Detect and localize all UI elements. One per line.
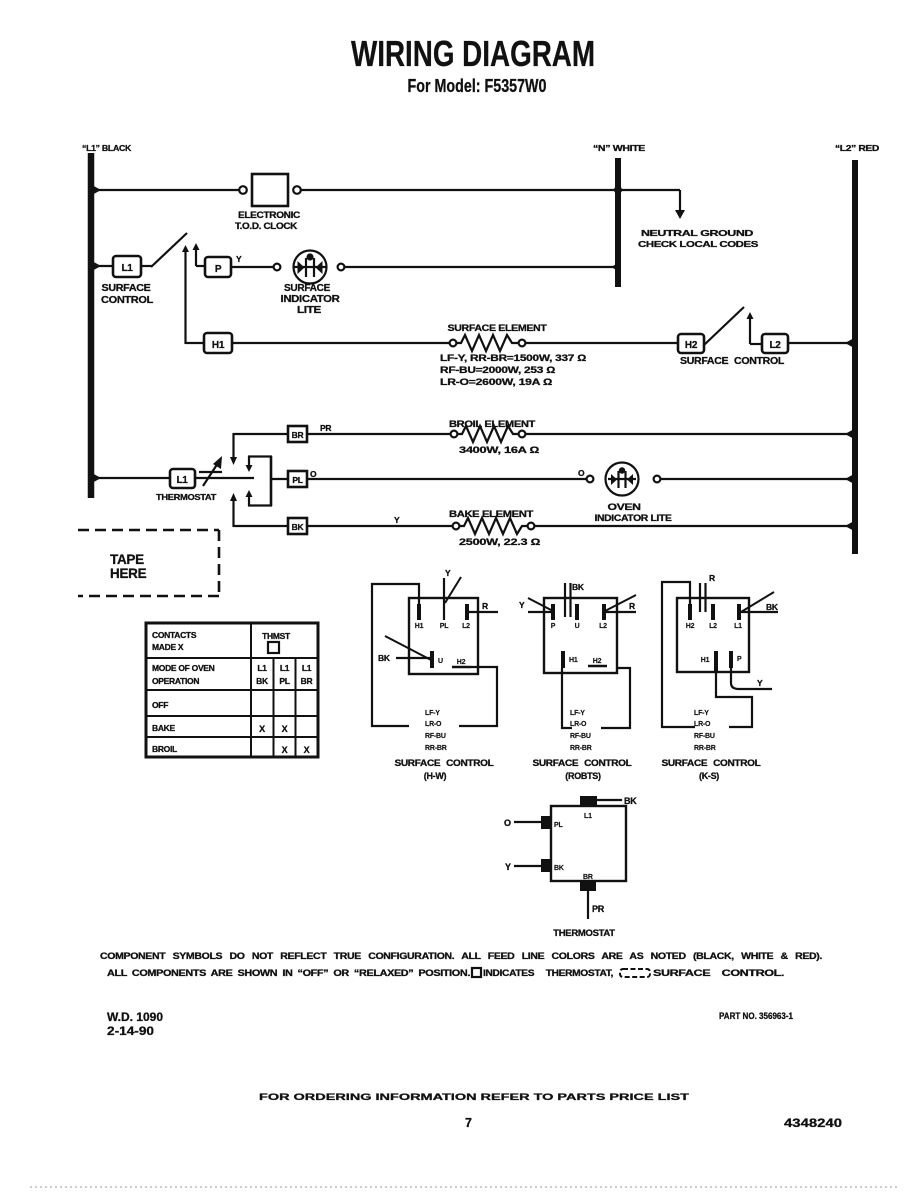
svg-text:SURFACE CONTROL: SURFACE CONTROL (533, 758, 633, 768)
bus L2 red (835, 143, 879, 554)
svg-text:OFF: OFF (152, 700, 168, 710)
svg-text:4348240: 4348240 (784, 1118, 842, 1130)
svg-text:(H-W): (H-W) (424, 771, 447, 781)
svg-text:PL: PL (292, 475, 302, 485)
terminal L2 + R (602, 604, 606, 620)
svg-text:RF-BU: RF-BU (570, 733, 591, 740)
H2 box (678, 334, 704, 353)
svg-text:Y: Y (394, 515, 400, 525)
wire clock to neutral (301, 189, 680, 191)
terminal L1 top (580, 796, 597, 806)
terminal PL left (541, 816, 551, 829)
arrow contact right (to P) (193, 243, 206, 266)
svg-text:O: O (578, 468, 585, 478)
svg-text:BK: BK (572, 582, 585, 592)
svg-text:Y: Y (519, 600, 525, 610)
switch blade L1 (141, 265, 152, 267)
terminal P + Y (551, 604, 555, 620)
svg-text:T.O.D. CLOCK: T.O.D. CLOCK (235, 221, 298, 231)
node row1-L1bus (91, 185, 101, 196)
svg-text:LR-O: LR-O (425, 721, 442, 728)
surface indicator lite lamp (281, 251, 341, 317)
L2 box (680, 334, 788, 367)
wire bracket to PL (271, 478, 288, 480)
contacts table (146, 623, 318, 757)
svg-text:“L2” RED: “L2” RED (835, 143, 879, 153)
thermostat L1 box (156, 469, 217, 502)
oven indicator row (307, 463, 855, 524)
svg-text:ELECTRONIC: ELECTRONIC (238, 210, 301, 220)
svg-text:RF-BU=2000W, 253 Ω: RF-BU=2000W, 253 Ω (440, 365, 555, 375)
svg-text:“N” WHITE: “N” WHITE (593, 143, 646, 153)
arrow neutral ground (675, 210, 685, 219)
svg-text:PL: PL (440, 623, 449, 630)
svg-text:PL: PL (554, 822, 563, 829)
svg-text:TAPE: TAPE (110, 552, 144, 567)
svg-text:L1: L1 (257, 663, 267, 673)
svg-text:BK: BK (554, 865, 564, 872)
svg-text:PART NO. 356963-1: PART NO. 356963-1 (719, 1011, 793, 1021)
svg-text:L1: L1 (302, 663, 312, 673)
svg-text:P: P (737, 656, 742, 663)
svg-text:PR: PR (320, 423, 331, 433)
svg-text:(K-S): (K-S) (699, 771, 719, 781)
svg-text:THERMOSTAT: THERMOSTAT (553, 928, 615, 939)
svg-text:BK: BK (292, 522, 305, 532)
svg-text:L2: L2 (709, 623, 717, 630)
svg-text:RF-BU: RF-BU (425, 733, 446, 740)
terminal circle clock left (239, 186, 247, 194)
wire H1 to element (232, 342, 450, 344)
node row2-L1bus (91, 261, 101, 272)
contact BK box (288, 518, 307, 534)
terminal PL wire Y (443, 578, 445, 620)
thermostat moving contact lower (230, 493, 237, 527)
terminal circle lamp right (338, 264, 345, 271)
svg-text:2500W, 22.3 Ω: 2500W, 22.3 Ω (459, 537, 540, 547)
bus N white (593, 143, 646, 287)
svg-text:LR-O: LR-O (570, 721, 587, 728)
terminal BR bottom (580, 881, 596, 891)
thermostat cam bracket (246, 456, 273, 506)
svg-text:R: R (482, 601, 488, 611)
svg-text:HERE: HERE (110, 566, 147, 581)
svg-text:Y: Y (757, 678, 763, 688)
terminal circle lamp left (274, 264, 281, 271)
svg-text:LITE: LITE (297, 305, 322, 316)
bus L1 black (82, 143, 132, 498)
surface control (ROBTS) (519, 582, 636, 781)
svg-text:CONTROL: CONTROL (101, 295, 153, 306)
svg-text:H1: H1 (415, 623, 424, 630)
wire lamp to N (344, 266, 618, 268)
terminal H2 + loop (688, 604, 692, 620)
surface control L1 box (101, 256, 153, 306)
svg-text:OVEN: OVEN (608, 502, 641, 512)
node row1-N (614, 186, 622, 194)
svg-text:BK: BK (766, 602, 779, 612)
svg-text:MODE OF OVEN: MODE OF OVEN (152, 663, 215, 673)
arrow contact left (to H1) (182, 245, 189, 344)
wire L2 box to bus (788, 342, 855, 344)
svg-text:3400W, 16A Ω: 3400W, 16A Ω (459, 445, 539, 455)
arrow contact (to L2 box) (747, 312, 763, 344)
svg-text:L2: L2 (462, 623, 470, 630)
svg-text:L2: L2 (599, 623, 607, 630)
svg-text:Y: Y (445, 568, 451, 578)
svg-text:U: U (575, 623, 580, 630)
thermostat switch symbol (195, 456, 254, 486)
H1 box (204, 333, 232, 353)
svg-text:RR-BR: RR-BR (570, 745, 592, 752)
svg-text:H1: H1 (212, 340, 225, 351)
terminal P + Y hook (729, 651, 733, 668)
svg-text:BR: BR (301, 676, 313, 686)
svg-text:H2: H2 (593, 658, 602, 665)
thermostat moving contact upper (230, 433, 237, 465)
thermostat sub-diagram (504, 796, 637, 939)
svg-text:LF-Y, RR-BR=1500W, 337 Ω: LF-Y, RR-BR=1500W, 337 Ω (440, 353, 586, 363)
svg-text:L2: L2 (769, 340, 781, 351)
terminal BK left (541, 859, 551, 872)
wire element to H2 (526, 342, 678, 344)
svg-text:Y: Y (505, 862, 511, 872)
svg-text:X: X (304, 745, 310, 755)
terminal U + BK (575, 604, 579, 620)
svg-text:L1: L1 (121, 263, 133, 274)
svg-text:R: R (709, 573, 715, 583)
terminal L2 + R wire (465, 604, 469, 620)
terminal H1 (417, 604, 421, 620)
svg-text:X: X (259, 724, 265, 734)
svg-text:P: P (551, 623, 556, 630)
svg-text:THERMOSTAT: THERMOSTAT (156, 492, 217, 502)
svg-text:2-14-90: 2-14-90 (107, 1026, 154, 1038)
terminal L1 + BK (737, 604, 741, 620)
bake element row (307, 509, 855, 547)
node thermostat-L1bus (91, 473, 101, 484)
thermostat key square (472, 968, 481, 977)
wire P to lamp (231, 266, 274, 268)
svg-text:W.D. 1090: W.D. 1090 (107, 1012, 163, 1024)
svg-text:BAKE: BAKE (152, 723, 176, 733)
svg-text:RR-BR: RR-BR (425, 745, 447, 752)
svg-text:X: X (282, 724, 288, 734)
svg-text:SURFACE CONTROL: SURFACE CONTROL (395, 758, 495, 768)
blade PL (445, 577, 461, 603)
svg-text:L1: L1 (280, 663, 290, 673)
svg-text:O: O (310, 469, 317, 479)
wire down to BK contact (234, 525, 289, 527)
svg-text:CHECK LOCAL CODES: CHECK LOCAL CODES (638, 239, 759, 249)
node row3-L2bus (845, 338, 855, 349)
svg-text:BK: BK (378, 653, 391, 663)
svg-text:INDICATES THERMOSTAT,: INDICATES THERMOSTAT, (483, 968, 613, 978)
terminal H1 + loop (561, 651, 565, 668)
wire H1 loop (372, 584, 419, 726)
wire corner to H1 (186, 342, 205, 344)
svg-text:L1: L1 (584, 813, 592, 820)
svg-text:P: P (215, 264, 222, 275)
svg-text:H2: H2 (457, 659, 466, 666)
svg-text:Y: Y (236, 254, 242, 264)
svg-text:“L1” BLACK: “L1” BLACK (82, 143, 132, 153)
svg-text:PR: PR (592, 904, 605, 914)
svg-text:H1: H1 (569, 657, 578, 664)
oven indicator lite lamp (606, 463, 639, 496)
terminal U + BK blade (430, 651, 434, 668)
svg-text:LR-O: LR-O (694, 721, 711, 728)
terminal circle clock right (293, 186, 301, 194)
svg-text:SURFACE ELEMENT: SURFACE ELEMENT (448, 323, 548, 333)
svg-text:NEUTRAL GROUND: NEUTRAL GROUND (641, 228, 753, 238)
svg-text:X: X (282, 745, 288, 755)
svg-text:INDICATOR LITE: INDICATOR LITE (595, 513, 672, 523)
svg-text:THMST: THMST (262, 631, 291, 641)
svg-text:BR: BR (583, 874, 593, 881)
svg-text:SURFACE CONTROL: SURFACE CONTROL (680, 356, 784, 367)
svg-text:SURFACE CONTROL: SURFACE CONTROL (662, 758, 762, 768)
svg-text:R: R (629, 601, 635, 611)
contact PL box (288, 471, 307, 487)
svg-text:RR-BR: RR-BR (694, 745, 716, 752)
svg-text:BROIL: BROIL (152, 744, 177, 754)
svg-text:FOR ORDERING INFORMATION REFER: FOR ORDERING INFORMATION REFER TO PARTS … (259, 1092, 689, 1103)
wire up to BR contact (234, 433, 289, 435)
svg-text:BAKE ELEMENT: BAKE ELEMENT (449, 509, 534, 519)
svg-text:LR-O=2600W, 19A Ω: LR-O=2600W, 19A Ω (440, 377, 552, 387)
svg-text:COMPONENT SYMBOLS DO NOT REFLE: COMPONENT SYMBOLS DO NOT REFLECT TRUE CO… (100, 951, 822, 961)
electronic T.O.D. clock box (235, 174, 301, 231)
svg-text:SURFACE CONTROL.: SURFACE CONTROL. (653, 968, 784, 978)
P box (205, 257, 231, 277)
node row2-N (611, 262, 621, 273)
terminal L2 + R (711, 604, 715, 620)
svg-text:H2: H2 (685, 340, 698, 351)
wire row1 clock feed (91, 189, 240, 191)
broil element row (307, 419, 855, 455)
svg-text:RF-BU: RF-BU (694, 733, 715, 740)
svg-text:LF-Y: LF-Y (570, 710, 585, 717)
svg-text:CONTACTS: CONTACTS (152, 630, 197, 640)
svg-text:MADE X: MADE X (152, 642, 184, 652)
svg-text:H2: H2 (686, 623, 695, 630)
surface element resistor (440, 323, 586, 387)
wire row2 from bus (91, 265, 113, 267)
svg-text:U: U (438, 658, 443, 665)
svg-text:LF-Y: LF-Y (694, 710, 709, 717)
bottom scan line (30, 1186, 900, 1188)
svg-text:SURFACE: SURFACE (284, 283, 331, 294)
svg-text:BR: BR (292, 430, 304, 440)
tape here box (78, 530, 219, 596)
svg-text:(ROBTS): (ROBTS) (565, 771, 601, 781)
svg-text:H1: H1 (701, 657, 710, 664)
svg-text:ALL COMPONENTS ARE SHOWN IN “O: ALL COMPONENTS ARE SHOWN IN “OFF” OR “RE… (107, 968, 470, 978)
surface control key rect (620, 969, 650, 977)
svg-text:BK: BK (256, 676, 269, 686)
svg-text:O: O (504, 818, 511, 828)
surface control (H-W) (372, 568, 498, 781)
contact BR box (288, 426, 307, 442)
svg-text:7: 7 (465, 1116, 472, 1130)
svg-text:L1: L1 (176, 475, 188, 486)
svg-text:SURFACE: SURFACE (102, 283, 152, 294)
switch blade H2 (704, 307, 744, 345)
svg-text:L1: L1 (734, 623, 742, 630)
surface control (K-S) (662, 573, 779, 781)
neutral ground drop wire (679, 190, 681, 211)
svg-text:BK: BK (624, 796, 637, 806)
svg-text:LF-Y: LF-Y (425, 710, 440, 717)
terminal H1 + loop (714, 651, 718, 672)
svg-text:OPERATION: OPERATION (152, 676, 199, 686)
svg-text:PL: PL (279, 676, 289, 686)
svg-text:INDICATOR: INDICATOR (281, 294, 341, 305)
svg-text:For Model: F5357W0: For Model: F5357W0 (408, 76, 547, 96)
svg-text:WIRING DIAGRAM: WIRING DIAGRAM (351, 33, 595, 74)
wire thermostat from bus (91, 477, 170, 479)
